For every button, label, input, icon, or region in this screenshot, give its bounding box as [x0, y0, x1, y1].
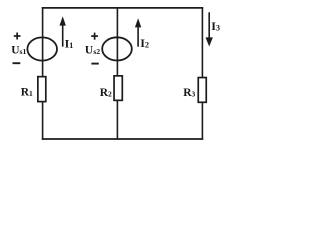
svg-text:I1: I1	[65, 36, 74, 50]
svg-text:Us1: Us1	[11, 44, 26, 56]
voltage source Us1	[27, 37, 57, 60]
current arrow I3	[206, 12, 213, 46]
wire left branch	[42, 7, 44, 140]
svg-text:Us2: Us2	[85, 44, 100, 56]
svg-text:R2: R2	[100, 87, 112, 99]
svg-text:R3: R3	[183, 87, 195, 99]
wire bottom	[42, 138, 203, 140]
wire top	[42, 7, 203, 9]
Us1 plus sign	[14, 33, 21, 40]
resistor R2	[114, 76, 122, 101]
current arrow I2	[135, 18, 141, 47]
Us2 plus sign	[91, 33, 98, 40]
wire right branch	[201, 7, 203, 140]
Us2 minus sign	[91, 63, 98, 65]
Us1 minus sign	[13, 62, 21, 64]
svg-text:I3: I3	[211, 19, 220, 33]
current arrow I1	[60, 16, 66, 46]
resistor R1	[38, 77, 46, 102]
svg-text:I2: I2	[140, 36, 149, 50]
svg-text:R1: R1	[21, 87, 33, 99]
voltage source Us2	[102, 37, 132, 60]
wire middle branch	[116, 7, 118, 140]
resistor R3	[198, 78, 206, 103]
